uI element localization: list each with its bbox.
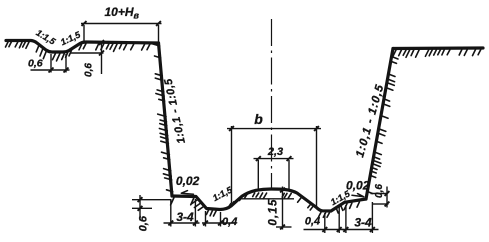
svg-text:0,6: 0,6 <box>28 58 43 70</box>
svg-text:0,6: 0,6 <box>83 63 94 77</box>
svg-text:0,6: 0,6 <box>137 215 149 231</box>
svg-text:3-4: 3-4 <box>354 216 372 230</box>
svg-text:0,6: 0,6 <box>374 184 385 198</box>
svg-text:0,15: 0,15 <box>268 198 280 225</box>
svg-text:0,02: 0,02 <box>346 178 370 192</box>
svg-text:2,3: 2,3 <box>267 146 283 158</box>
svg-text:b: b <box>254 111 263 127</box>
svg-text:0,4: 0,4 <box>222 216 237 228</box>
svg-text:1:0,1 - 1:0,5: 1:0,1 - 1:0,5 <box>354 83 386 159</box>
svg-text:3-4: 3-4 <box>176 210 194 224</box>
svg-text:0,02: 0,02 <box>176 174 200 188</box>
svg-text:0,4: 0,4 <box>305 216 320 228</box>
svg-text:10+Нв: 10+Нв <box>105 5 140 21</box>
